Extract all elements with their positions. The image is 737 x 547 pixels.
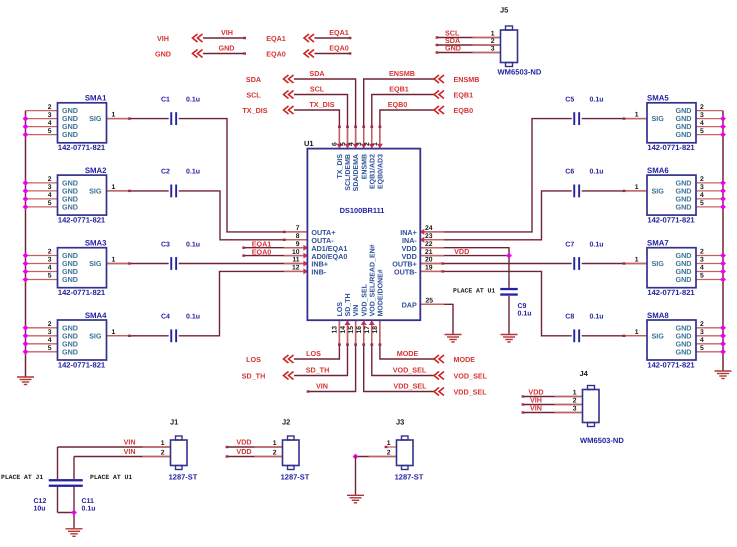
svg-text:2: 2 <box>48 104 52 111</box>
svg-text:SMA6: SMA6 <box>647 166 669 175</box>
svg-text:SIG: SIG <box>652 187 665 196</box>
svg-text:SMA1: SMA1 <box>85 94 107 103</box>
svg-text:VOD_SEL: VOD_SEL <box>393 365 427 374</box>
svg-text:3: 3 <box>48 184 52 191</box>
svg-text:SD_TH: SD_TH <box>242 372 266 381</box>
svg-text:C12: C12 <box>34 498 47 505</box>
svg-text:2: 2 <box>387 450 391 457</box>
svg-text:13: 13 <box>332 326 339 334</box>
svg-text:142-0771-821: 142-0771-821 <box>58 215 106 224</box>
svg-text:GND: GND <box>676 275 692 284</box>
svg-text:J3: J3 <box>396 418 404 427</box>
svg-text:2: 2 <box>573 398 577 405</box>
svg-text:SDA/DEMA: SDA/DEMA <box>352 154 360 191</box>
svg-text:4: 4 <box>48 265 52 272</box>
svg-text:2: 2 <box>273 450 277 457</box>
svg-text:MODE: MODE <box>454 355 476 364</box>
svg-text:3: 3 <box>48 112 52 119</box>
svg-text:VIN: VIN <box>124 437 136 446</box>
svg-text:19: 19 <box>425 265 433 272</box>
svg-text:1287-ST: 1287-ST <box>395 473 424 482</box>
svg-text:142-0771-821: 142-0771-821 <box>647 143 695 152</box>
svg-text:U1: U1 <box>304 139 314 148</box>
svg-text:C4: C4 <box>161 314 170 321</box>
svg-text:2: 2 <box>491 38 495 45</box>
svg-text:7: 7 <box>296 225 300 232</box>
svg-text:0.1u: 0.1u <box>590 96 604 103</box>
svg-text:2: 2 <box>161 450 165 457</box>
svg-text:EQA1: EQA1 <box>266 34 286 43</box>
svg-text:GND: GND <box>155 50 171 59</box>
svg-text:VDD: VDD <box>236 437 251 446</box>
svg-text:1287-ST: 1287-ST <box>169 473 198 482</box>
svg-text:4: 4 <box>700 265 704 272</box>
svg-text:5: 5 <box>48 273 52 280</box>
svg-text:0.1u: 0.1u <box>186 241 200 248</box>
svg-text:SD_TH: SD_TH <box>306 365 330 374</box>
svg-text:J2: J2 <box>282 418 290 427</box>
svg-text:1: 1 <box>112 257 116 264</box>
svg-text:ENSMB: ENSMB <box>454 75 480 84</box>
svg-text:3: 3 <box>700 257 704 264</box>
svg-text:C7: C7 <box>565 241 574 248</box>
svg-text:3: 3 <box>573 406 577 413</box>
svg-text:ENSMB: ENSMB <box>389 69 415 78</box>
svg-text:2: 2 <box>700 321 704 328</box>
svg-text:2: 2 <box>364 142 371 146</box>
svg-text:1: 1 <box>273 440 277 447</box>
svg-text:MODE/DONE#: MODE/DONE# <box>377 269 385 316</box>
svg-text:GND: GND <box>62 203 78 212</box>
svg-text:SMA8: SMA8 <box>647 311 669 320</box>
svg-text:J5: J5 <box>500 6 508 15</box>
svg-text:GND: GND <box>676 203 692 212</box>
svg-text:0.1u: 0.1u <box>82 506 96 513</box>
svg-text:5: 5 <box>700 345 704 352</box>
svg-text:1: 1 <box>491 31 495 38</box>
svg-text:INB-: INB- <box>311 268 326 277</box>
svg-text:C8: C8 <box>565 314 574 321</box>
svg-text:2: 2 <box>700 104 704 111</box>
svg-text:PLACE AT U1: PLACE AT U1 <box>453 288 495 295</box>
svg-text:1: 1 <box>161 440 165 447</box>
svg-text:SDA: SDA <box>246 75 261 84</box>
svg-text:GND: GND <box>219 43 235 52</box>
svg-text:C1: C1 <box>161 96 170 103</box>
svg-text:TX_DIS: TX_DIS <box>309 100 334 109</box>
svg-text:SIG: SIG <box>89 187 102 196</box>
svg-text:2: 2 <box>700 176 704 183</box>
svg-text:142-0771-821: 142-0771-821 <box>58 143 106 152</box>
svg-text:1: 1 <box>635 257 639 264</box>
svg-text:VIH: VIH <box>221 28 233 37</box>
svg-text:20: 20 <box>425 257 433 264</box>
svg-text:3: 3 <box>48 329 52 336</box>
svg-text:GND: GND <box>62 275 78 284</box>
svg-text:0.1u: 0.1u <box>186 169 200 176</box>
svg-text:GND: GND <box>676 130 692 139</box>
svg-text:PLACE AT J1: PLACE AT J1 <box>1 474 43 481</box>
svg-text:22: 22 <box>425 241 433 248</box>
svg-text:1: 1 <box>112 112 116 119</box>
svg-text:3: 3 <box>700 329 704 336</box>
svg-text:1: 1 <box>635 184 639 191</box>
svg-text:3: 3 <box>700 112 704 119</box>
svg-text:SIG: SIG <box>652 114 665 123</box>
svg-text:DS100BR111: DS100BR111 <box>340 206 385 215</box>
svg-text:SDA: SDA <box>309 69 324 78</box>
svg-text:1: 1 <box>387 440 391 447</box>
svg-text:VIN: VIN <box>353 305 360 317</box>
svg-text:EQA1: EQA1 <box>329 28 349 37</box>
svg-text:21: 21 <box>425 249 433 256</box>
svg-text:VOD_SEL/READ_EN#: VOD_SEL/READ_EN# <box>368 244 376 316</box>
svg-text:SIG: SIG <box>89 114 102 123</box>
svg-text:1: 1 <box>372 142 379 146</box>
svg-text:SMA4: SMA4 <box>85 311 107 320</box>
svg-text:0.1u: 0.1u <box>590 241 604 248</box>
svg-text:WM6503-ND: WM6503-ND <box>498 68 542 77</box>
svg-text:VIN: VIN <box>124 447 136 456</box>
svg-text:16: 16 <box>356 326 363 334</box>
svg-text:C6: C6 <box>565 169 574 176</box>
svg-text:5: 5 <box>700 200 704 207</box>
svg-text:1: 1 <box>112 184 116 191</box>
svg-text:5: 5 <box>700 273 704 280</box>
svg-text:TX_DIS: TX_DIS <box>337 154 344 179</box>
svg-text:DAP: DAP <box>402 300 417 309</box>
svg-text:LOS: LOS <box>246 355 261 364</box>
svg-text:VIN: VIN <box>316 381 328 390</box>
svg-text:3: 3 <box>700 184 704 191</box>
svg-text:VDD: VDD <box>236 447 251 456</box>
svg-text:4: 4 <box>700 337 704 344</box>
svg-text:142-0771-821: 142-0771-821 <box>647 360 695 369</box>
svg-text:4: 4 <box>700 192 704 199</box>
svg-text:VDD_SEL: VDD_SEL <box>361 283 368 316</box>
svg-text:EQB1: EQB1 <box>389 84 409 93</box>
svg-text:TX_DIS: TX_DIS <box>242 106 267 115</box>
svg-text:ENSMB: ENSMB <box>361 154 368 179</box>
svg-text:VDD_SEL: VDD_SEL <box>454 388 488 397</box>
svg-text:GND: GND <box>62 130 78 139</box>
svg-text:EQB1: EQB1 <box>454 91 474 100</box>
svg-text:5: 5 <box>48 200 52 207</box>
svg-text:OUTB-: OUTB- <box>394 268 417 277</box>
svg-text:VIN: VIN <box>530 403 542 412</box>
svg-text:0.1u: 0.1u <box>518 311 532 318</box>
svg-text:8: 8 <box>296 233 300 240</box>
svg-text:SCL/DEMB: SCL/DEMB <box>344 154 352 191</box>
svg-text:SIG: SIG <box>652 331 665 340</box>
svg-text:SMA5: SMA5 <box>647 94 669 103</box>
svg-text:11: 11 <box>292 257 299 264</box>
svg-text:1: 1 <box>635 112 639 119</box>
svg-text:6: 6 <box>332 142 339 146</box>
svg-text:24: 24 <box>425 225 433 232</box>
svg-text:9: 9 <box>296 241 300 248</box>
svg-text:4: 4 <box>48 120 52 127</box>
svg-text:3: 3 <box>491 46 495 53</box>
svg-text:EQB0: EQB0 <box>388 100 408 109</box>
svg-text:1287-ST: 1287-ST <box>281 473 310 482</box>
svg-text:2: 2 <box>48 249 52 256</box>
svg-text:4: 4 <box>48 337 52 344</box>
svg-text:SMA2: SMA2 <box>85 166 107 175</box>
svg-text:GND: GND <box>445 43 461 52</box>
svg-text:J1: J1 <box>170 418 178 427</box>
svg-text:VDD: VDD <box>454 247 469 256</box>
svg-text:0.1u: 0.1u <box>590 169 604 176</box>
svg-text:2: 2 <box>48 176 52 183</box>
svg-text:142-0771-821: 142-0771-821 <box>647 215 695 224</box>
svg-text:10u: 10u <box>34 506 46 513</box>
svg-text:1: 1 <box>573 390 577 397</box>
svg-text:MODE: MODE <box>397 349 419 358</box>
svg-text:VIH: VIH <box>157 34 169 43</box>
svg-text:142-0771-821: 142-0771-821 <box>647 288 695 297</box>
svg-text:5: 5 <box>700 128 704 135</box>
svg-text:GND: GND <box>62 347 78 356</box>
svg-text:SD_TH: SD_TH <box>345 293 352 316</box>
svg-text:WM6503-ND: WM6503-ND <box>580 436 624 445</box>
svg-text:EQA0: EQA0 <box>252 248 272 257</box>
svg-text:LOS: LOS <box>306 349 321 358</box>
svg-text:EQB0/AD3: EQB0/AD3 <box>377 154 385 189</box>
svg-text:5: 5 <box>48 128 52 135</box>
svg-text:23: 23 <box>425 233 433 240</box>
svg-text:LOS: LOS <box>337 302 344 317</box>
svg-text:EQB0: EQB0 <box>454 106 474 115</box>
svg-text:PLACE AT U1: PLACE AT U1 <box>90 474 132 481</box>
svg-text:VOD_SEL: VOD_SEL <box>454 372 488 381</box>
svg-text:SIG: SIG <box>89 259 102 268</box>
svg-text:C3: C3 <box>161 241 170 248</box>
svg-text:SIG: SIG <box>652 259 665 268</box>
svg-text:1: 1 <box>635 329 639 336</box>
svg-text:25: 25 <box>426 297 434 304</box>
svg-text:3: 3 <box>48 257 52 264</box>
svg-text:2: 2 <box>700 249 704 256</box>
svg-text:2: 2 <box>48 321 52 328</box>
svg-text:SCL: SCL <box>310 84 325 93</box>
svg-text:0.1u: 0.1u <box>186 96 200 103</box>
svg-text:17: 17 <box>364 326 371 334</box>
svg-text:5: 5 <box>340 142 347 146</box>
svg-text:C2: C2 <box>161 169 170 176</box>
svg-text:1: 1 <box>112 329 116 336</box>
svg-text:C9: C9 <box>518 303 527 310</box>
svg-text:18: 18 <box>372 326 379 334</box>
svg-text:C5: C5 <box>565 96 574 103</box>
svg-text:0.1u: 0.1u <box>590 314 604 321</box>
svg-text:4: 4 <box>48 192 52 199</box>
svg-text:SCL: SCL <box>246 91 261 100</box>
svg-text:SMA3: SMA3 <box>85 239 107 248</box>
svg-text:EQB1/AD2: EQB1/AD2 <box>368 154 376 189</box>
svg-text:15: 15 <box>348 326 355 334</box>
svg-text:14: 14 <box>340 326 347 334</box>
svg-text:EQA0: EQA0 <box>329 43 349 52</box>
svg-text:EQA0: EQA0 <box>266 50 286 59</box>
svg-text:C11: C11 <box>82 498 95 505</box>
svg-text:4: 4 <box>348 142 355 146</box>
svg-text:SIG: SIG <box>89 331 102 340</box>
svg-text:5: 5 <box>48 345 52 352</box>
svg-text:4: 4 <box>700 120 704 127</box>
svg-text:SMA7: SMA7 <box>647 239 669 248</box>
svg-text:GND: GND <box>676 347 692 356</box>
svg-text:142-0771-821: 142-0771-821 <box>58 288 106 297</box>
svg-text:10: 10 <box>292 249 300 256</box>
svg-text:142-0771-821: 142-0771-821 <box>58 360 106 369</box>
svg-text:3: 3 <box>356 142 363 146</box>
svg-text:J4: J4 <box>580 369 589 378</box>
svg-text:12: 12 <box>292 265 300 272</box>
svg-text:0.1u: 0.1u <box>186 314 200 321</box>
svg-text:VDD_SEL: VDD_SEL <box>393 381 427 390</box>
